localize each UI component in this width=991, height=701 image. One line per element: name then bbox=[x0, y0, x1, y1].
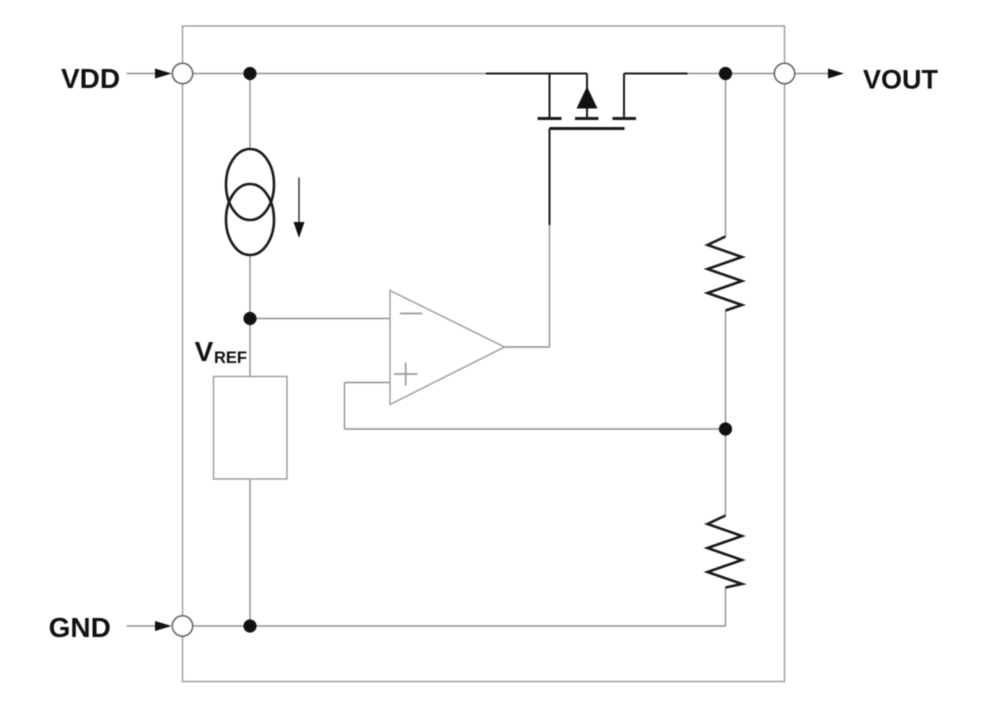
svg-text:GND: GND bbox=[49, 612, 111, 643]
svg-text:VOUT: VOUT bbox=[863, 65, 939, 95]
svg-text:VDD: VDD bbox=[61, 63, 120, 94]
svg-text:REF: REF bbox=[214, 349, 247, 367]
svg-text:V: V bbox=[195, 336, 214, 367]
